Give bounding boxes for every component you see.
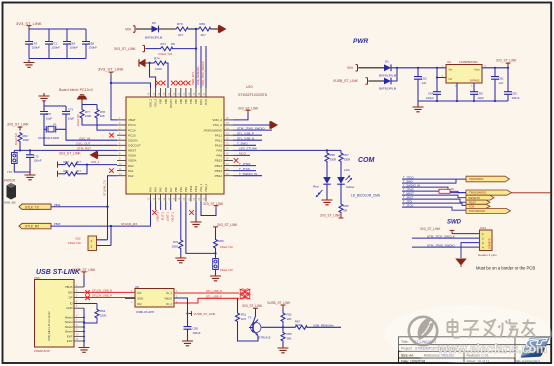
wire diode outputs join	[391, 68, 446, 81]
svg-text:PB2: PB2	[184, 187, 188, 192]
wire STLK_TX	[51, 206, 108, 208]
resistor R74 100K	[150, 57, 168, 71]
svg-text:R65: R65	[287, 332, 293, 336]
wire R65 to ground	[282, 342, 284, 346]
junction R71 column	[195, 47, 197, 49]
U10 top pin 40 PB4	[188, 88, 193, 104]
junction 3V3 rail	[110, 82, 112, 84]
U10 bottom pin 17 PA7	[168, 187, 173, 202]
wire T_NRST	[402, 195, 466, 198]
power 3V3_ST_LINK tick	[27, 26, 32, 29]
power arrow VDDA	[91, 151, 98, 158]
svg-text:PA10: PA10	[215, 144, 222, 148]
wire U9 output	[482, 67, 508, 69]
svg-text:100R: 100R	[295, 323, 302, 327]
wire yellow LED to R56	[340, 184, 342, 203]
resistor R62 100K DNF	[18, 132, 29, 142]
no-connect X PC15	[109, 133, 114, 138]
wire R69 to arrow	[212, 28, 219, 30]
svg-text:330R: 330R	[330, 158, 337, 162]
junction PWR_EXT	[195, 28, 197, 30]
U10 bottom pin 24 VDD_1	[203, 183, 208, 201]
U10 bottom pin 23 VSS_1	[198, 183, 203, 201]
svg-text:1K5: 1K5	[241, 317, 246, 321]
svg-text:DM: DM	[68, 290, 73, 294]
resistor R57 330R	[339, 150, 350, 162]
svg-text:100nF: 100nF	[32, 46, 41, 50]
svg-text:T_SWO: T_SWO	[237, 142, 248, 146]
svg-text:BAT60JFILM: BAT60JFILM	[145, 35, 163, 39]
svg-text:LED_STLINK: LED_STLINK	[239, 147, 257, 151]
svg-text:STL_USB_N: STL_USB_N	[237, 136, 254, 140]
svg-text:D5: D5	[152, 21, 156, 25]
no-connect X top pins c	[171, 81, 176, 86]
svg-text:IO_2: IO_2	[166, 302, 173, 306]
svg-text:VSSA: VSSA	[128, 154, 136, 158]
CN6 shield pins 6-9	[65, 315, 84, 334]
U10 right pin 25 VSS_2	[213, 122, 233, 127]
svg-text:GND: GND	[137, 297, 143, 301]
U10 bottom pin 20 PB2	[183, 187, 188, 202]
svg-text:100nF: 100nF	[89, 46, 98, 50]
no-connect X top pins a	[156, 81, 161, 86]
wire PB0 col to R79	[180, 202, 182, 240]
svg-text:R70: R70	[177, 22, 183, 26]
capacitor C63 100nF	[504, 68, 520, 101]
svg-text:4K7: 4K7	[201, 33, 207, 37]
junction shield dots	[83, 317, 85, 319]
U10 right pin 27 PB14	[215, 163, 233, 168]
svg-text:USB_RENUMn: USB_RENUMn	[313, 324, 334, 328]
power tick VDD_1	[214, 206, 219, 209]
resistor R66 Fitted NO	[214, 231, 234, 250]
power tick LED down	[339, 213, 344, 218]
svg-text:VSS_2: VSS_2	[213, 123, 223, 127]
ground C58	[182, 338, 193, 346]
ground CN4	[455, 259, 467, 268]
transistor T2 2STR1415	[248, 312, 271, 340]
CN6 pin 1 VBUS	[65, 284, 84, 289]
resistor R81 4K7	[60, 169, 82, 176]
svg-text:OSCOUT: OSCOUT	[128, 144, 141, 148]
wire crystal cap rail	[44, 101, 66, 112]
title block outer	[399, 337, 552, 364]
svg-text:T_JTDO: T_JTDO	[171, 212, 174, 222]
svg-text:PB6: PB6	[179, 98, 183, 103]
resistor R79 100K	[171, 239, 182, 249]
U10 left pin 9 VDDA	[117, 158, 136, 163]
svg-text:PB15: PB15	[54, 222, 61, 226]
wire R51 from pair	[237, 298, 239, 312]
U10 left pin 12 PA2	[117, 173, 134, 178]
ground cap bank	[24, 60, 35, 68]
svg-text:PA8: PA8	[217, 154, 223, 158]
U10 right pin 29 PA8	[217, 153, 233, 158]
resistor R67 100R	[294, 319, 308, 329]
wire VIN to D1	[358, 67, 384, 69]
svg-text:Fitted: NO: Fitted: NO	[14, 133, 18, 145]
junction C64	[436, 76, 438, 78]
watermark circle logo	[409, 317, 437, 345]
svg-text:IO1: IO1	[137, 291, 142, 295]
svg-text:STM_JTCK_SWCLK: STM_JTCK_SWCLK	[201, 61, 205, 86]
wire STM_JTCK_SWCLK column	[205, 46, 207, 88]
resistor R64 100K	[95, 304, 107, 319]
wire STM_JTMS_SWDIO	[233, 129, 272, 131]
junction bottom rail dots	[436, 100, 438, 102]
wire branch to U10 top pin1	[111, 83, 151, 88]
wire resistors to LEDs	[327, 162, 341, 177]
wire T_JTDO	[402, 178, 466, 180]
U10 right pin 26 VDD_2	[212, 117, 233, 122]
power bracket VUSB PWR	[366, 78, 368, 84]
power arrow right VSS_2	[270, 121, 277, 128]
U10 right pin 34 JTMS/SWDIO	[203, 127, 233, 132]
wire STL_USB_P	[233, 134, 262, 136]
svg-text:STL_USB_N: STL_USB_N	[206, 289, 222, 293]
svg-text:Vin: Vin	[449, 68, 453, 72]
connector CN2 Fitted NO	[68, 236, 97, 251]
power tick R52	[281, 305, 286, 309]
svg-text:www.elecfans.com: www.elecfans.com	[437, 342, 547, 356]
U10 top pin 38 PA15	[198, 88, 203, 105]
junction VUSB mid	[186, 312, 188, 314]
svg-text:PB0: PB0	[174, 187, 178, 192]
wire R74 down to BOOT0 column	[167, 63, 168, 88]
svg-text:VBUS: VBUS	[164, 297, 172, 301]
svg-text:USB_RENUMn: USB_RENUMn	[196, 66, 200, 85]
U10 left pin 2 PC13	[117, 122, 136, 127]
svg-text:Shield: Shield	[65, 320, 73, 324]
svg-text:VDD_3: VDD_3	[149, 98, 153, 107]
svg-text:C58: C58	[193, 327, 199, 331]
U10 left pin 1 VBAT	[117, 117, 136, 122]
wire VSS_1 col to ground	[195, 202, 197, 220]
svg-text:SWIM_BK: SWIM_BK	[2, 201, 16, 205]
svg-text:R51: R51	[241, 313, 247, 317]
svg-text:Shield: Shield	[65, 325, 73, 329]
diode D5 BAT60JFILM	[145, 21, 163, 39]
CN6 pin 3 DP	[69, 295, 84, 300]
svg-text:R57: R57	[344, 153, 350, 157]
wire U8 GND stub	[125, 298, 135, 300]
power bracket VIN	[133, 26, 135, 32]
svg-text:T_JTDI: T_JTDI	[161, 212, 164, 221]
capacitor C76 10pF	[40, 112, 52, 121]
svg-text:TCK/SWCLK: TCK/SWCLK	[469, 209, 486, 213]
wire U8 VBUS down	[174, 298, 188, 314]
U10 top pin 41 PB5	[183, 88, 188, 104]
svg-text:JTCK: JTCK	[204, 99, 208, 106]
wire short stub col PA4	[155, 202, 157, 211]
wire CN6 ground bus	[83, 308, 85, 345]
op-amp U10 STM32F103CBT6 body	[126, 97, 224, 194]
svg-text:100K: 100K	[23, 138, 30, 142]
wire maroon TMS to border	[512, 192, 552, 194]
svg-text:Header 4 pins: Header 4 pins	[478, 253, 497, 257]
power arrow right top	[219, 25, 226, 32]
svg-text:PC13: PC13	[128, 123, 136, 127]
svg-text:PB1: PB1	[179, 187, 183, 192]
wire LED_STLINK long	[233, 149, 341, 151]
svg-text:Red: Red	[313, 185, 319, 189]
power tick VUSB mid	[189, 311, 192, 316]
svg-text:100nF: 100nF	[52, 46, 61, 50]
svg-text:PB15: PB15	[215, 159, 223, 163]
resistor R56 0R	[339, 203, 349, 213]
svg-text:PA4: PA4	[154, 187, 158, 192]
wire T2 to node	[262, 326, 295, 328]
power VDD pad symbol	[78, 95, 87, 105]
no-connect X below PA3 col	[152, 210, 157, 215]
svg-text:CN4: CN4	[480, 226, 486, 230]
svg-text:Fitted: NO: Fitted: NO	[76, 114, 80, 126]
resistor R77 100K	[80, 109, 91, 119]
svg-text:AIN_1: AIN_1	[91, 160, 100, 164]
capacitor C64 100nF	[426, 78, 441, 102]
wire STLK_RX to PA3	[51, 202, 151, 227]
svg-text:2STR1415: 2STR1415	[257, 336, 271, 340]
wire USB_RENUMn	[308, 326, 341, 328]
svg-text:TDO/SWO: TDO/SWO	[469, 177, 484, 181]
wire D5 to R70	[159, 28, 176, 30]
wire red LED to ground	[326, 184, 328, 197]
svg-text:3V3_ST_LINK: 3V3_ST_LINK	[496, 59, 517, 63]
resistor R51 1K5	[236, 312, 247, 322]
svg-text:LD3985M33R: LD3985M33R	[459, 60, 478, 64]
svg-text:NRST: NRST	[128, 149, 136, 153]
svg-text:VSS_1: VSS_1	[199, 183, 203, 192]
svg-text:IO2: IO2	[137, 302, 142, 306]
flag TDO/SWO	[466, 176, 510, 182]
svg-text:T2: T2	[248, 316, 252, 320]
diode D1 BAT60JFILM	[379, 60, 397, 78]
wire T_JTCK	[233, 170, 256, 172]
diode D2 BAT60JFILM	[379, 78, 397, 91]
svg-text:Fitted: NO: Fitted: NO	[220, 245, 234, 249]
svg-text:R74: R74	[154, 57, 160, 61]
svg-text:STLK_TX: STLK_TX	[25, 205, 40, 209]
power bracket VIN PWR	[356, 65, 358, 71]
wire R79 to ground	[180, 249, 182, 255]
capacitor C60 10nF bypass	[470, 83, 484, 101]
flag TCK/SWCLK	[466, 208, 511, 213]
flag STLK_TX	[19, 204, 51, 209]
resistor R78 10K	[95, 109, 105, 119]
svg-text:U9: U9	[447, 60, 451, 64]
U10 bottom pin 15 PA5	[158, 187, 163, 202]
svg-text:USBLC6-2P6: USBLC6-2P6	[136, 310, 154, 314]
wire T_JTDI	[402, 203, 466, 205]
wire CN2 pin2 to RX	[97, 226, 112, 245]
wire MCO	[233, 154, 250, 156]
U10 right pin 30 PA9	[217, 148, 233, 153]
svg-text:VBUS: VBUS	[65, 285, 73, 289]
U10 top pin 42 PB6	[178, 88, 183, 104]
ground R65	[278, 345, 289, 353]
svg-text:25486TR: 25486TR	[488, 238, 492, 249]
svg-text:T_SWDIO_IN: T_SWDIO_IN	[239, 172, 257, 176]
svg-text:PB13: PB13	[215, 169, 223, 173]
svg-text:1uF: 1uF	[499, 81, 504, 85]
ground TP1 C72	[25, 172, 36, 180]
svg-text:3V3_ST_LINK: 3V3_ST_LINK	[217, 223, 238, 227]
svg-text:Inh: Inh	[449, 77, 453, 81]
svg-text:BAT60JFILM: BAT60JFILM	[379, 73, 397, 77]
U10 bottom pin 19 PB1	[178, 187, 183, 202]
svg-text:1uF: 1uF	[422, 81, 427, 85]
svg-text:2K7: 2K7	[178, 33, 184, 37]
svg-text:STLCN_USB_N: STLCN_USB_N	[92, 289, 112, 293]
svg-text:Fitted: NO: Fitted: NO	[159, 52, 173, 56]
resistor R52 10K	[281, 309, 292, 323]
svg-text:PA12: PA12	[215, 133, 222, 137]
svg-text:PA3: PA3	[149, 187, 153, 192]
wire AIN_1 to PA0	[78, 164, 117, 166]
wire VUSB to D2	[368, 80, 384, 82]
wire NRST net horizontal	[14, 149, 117, 151]
junction R74 left	[148, 62, 150, 64]
wire VIN to D5	[136, 28, 152, 30]
svg-text:STLCN_USB_P: STLCN_USB_P	[92, 294, 112, 298]
svg-text:Shield: Shield	[65, 330, 73, 334]
svg-text:PWR_EXT: PWR_EXT	[191, 72, 195, 85]
junction NRST	[19, 149, 21, 151]
wire red STLCN_USB_P	[84, 297, 135, 299]
resistor R58 330R	[325, 150, 336, 162]
svg-text:10K: 10K	[287, 317, 292, 321]
svg-text:VIN: VIN	[347, 66, 353, 70]
wire R51 to emitter	[238, 322, 259, 341]
no-connect X top pins b	[161, 81, 166, 86]
svg-text:3V3_ST_LINK: 3V3_ST_LINK	[7, 123, 29, 127]
wire PWR bottom rail	[418, 100, 508, 102]
svg-text:100nF: 100nF	[426, 96, 434, 100]
flag TCK	[466, 204, 490, 208]
capacitor C72 100nF	[26, 150, 42, 162]
capacitor C61 1uF	[491, 68, 504, 101]
svg-text:ID: ID	[70, 302, 73, 306]
U10 bottom pin 14 PA4	[153, 187, 158, 202]
svg-text:MCO: MCO	[239, 152, 247, 156]
svg-text:3V3_ST_LINK: 3V3_ST_LINK	[320, 214, 341, 218]
wire 3V3 rail down to VBAT	[111, 76, 117, 120]
resistor R69 4K7	[198, 22, 212, 37]
capacitor C70	[25, 42, 40, 50]
svg-text:PC14: PC14	[128, 128, 136, 132]
wire R52 to node	[282, 322, 284, 332]
svg-text:STL_USB_P: STL_USB_P	[206, 295, 222, 299]
svg-text:PA2: PA2	[128, 174, 134, 178]
flag RESET#	[466, 195, 494, 200]
twisted pair symbol	[240, 289, 251, 299]
svg-text:COM: COM	[358, 157, 375, 164]
svg-text:36K: 36K	[287, 337, 292, 341]
svg-text:PB3: PB3	[194, 98, 198, 103]
power tick NRST pullup	[18, 127, 23, 130]
junction STLK_TX	[106, 206, 108, 208]
wire R77 to PC13	[82, 119, 117, 126]
svg-text:R56: R56	[344, 204, 350, 208]
U10 bottom pin 16 PA6	[163, 187, 168, 202]
resistor R63 DNF red	[439, 188, 454, 193]
U10 left pin 11 PA1	[117, 168, 134, 173]
wire R74 junction down to VSS_3 column	[150, 63, 156, 88]
svg-text:PA0: PA0	[128, 164, 134, 168]
wire short stub col PA7	[170, 202, 172, 211]
U10 bottom pin 13 PA3	[148, 187, 153, 202]
wire T_JTMS	[233, 165, 256, 167]
capacitor C73 10pF	[62, 108, 74, 121]
svg-text:PB8: PB8	[164, 98, 168, 103]
regulator U9 LD3985M33R	[442, 60, 487, 88]
svg-text:100K: 100K	[171, 245, 178, 249]
wire cap bank verticals top	[29, 29, 86, 42]
wire R78 to PC14	[97, 119, 117, 131]
U10 right pin 31 PA10	[215, 143, 233, 148]
wire USB_RENUMn column	[200, 46, 202, 88]
svg-text:HW100: HW100	[4, 179, 15, 183]
svg-text:VDD_2: VDD_2	[212, 118, 222, 122]
wire cap bank top rail	[29, 28, 86, 30]
wire PA2 STLINK_TX	[108, 176, 118, 207]
U10 right pin 28 PB15	[215, 158, 233, 163]
svg-text:100nF: 100nF	[512, 96, 520, 100]
wire short stub col PA5	[160, 202, 162, 211]
svg-text:TP1: TP1	[7, 170, 13, 174]
svg-text:330R: 330R	[344, 158, 351, 162]
no-connect X top pins d	[176, 81, 181, 86]
svg-text:R52: R52	[287, 313, 293, 317]
U10 left pin 10 PA0	[117, 163, 134, 168]
U10 top pin 46 PB9	[158, 88, 163, 104]
svg-text:JTMS/SWDIO: JTMS/SWDIO	[203, 128, 222, 132]
wire pullup top rail	[82, 105, 97, 109]
svg-text:T_JTMS: T_JTMS	[239, 162, 250, 166]
svg-text:PB10: PB10	[189, 185, 193, 192]
svg-text:100K: 100K	[85, 114, 92, 118]
svg-text:Yellow: Yellow	[346, 185, 356, 189]
junction renum node	[282, 326, 284, 328]
junction TP2 node	[214, 252, 216, 254]
power arrow left R74	[139, 59, 148, 66]
wire VDDA row	[98, 154, 118, 156]
wire R62 bottom to NRST net	[19, 142, 21, 150]
U10 right pin 21 PB13	[215, 168, 233, 173]
svg-text:PB14: PB14	[215, 164, 223, 168]
U10 bottom pin 18 PB0	[173, 187, 178, 202]
U10 top pin 44 BOOT0	[168, 88, 173, 108]
wire T_JTMS	[402, 190, 439, 192]
svg-text:R79: R79	[173, 240, 179, 244]
svg-text:PB7: PB7	[174, 98, 178, 103]
svg-text:PA7: PA7	[169, 187, 173, 192]
svg-text:4K7: 4K7	[76, 169, 81, 173]
svg-text:VUSB_ST_LINK: VUSB_ST_LINK	[333, 79, 359, 83]
connector CN6 USB Micro-B	[34, 276, 74, 353]
power tick SWD	[450, 230, 455, 233]
svg-text:Shield: Shield	[65, 316, 73, 320]
svg-text:100nF: 100nF	[70, 46, 79, 50]
no-connect X DP filter	[85, 295, 90, 300]
resistor R71 0R Fitted NO	[159, 42, 176, 56]
wire CN4 pin2 STM_JTCK_SWCLK	[412, 237, 480, 239]
U10 bottom pin 21 PB10	[188, 185, 193, 201]
wire VDD_2 to 3V3	[233, 113, 248, 120]
U10 top pin 48 VDD_3	[148, 88, 153, 107]
svg-text:OSCIN: OSCIN	[128, 138, 138, 142]
capacitor C62 1uF	[414, 68, 427, 101]
